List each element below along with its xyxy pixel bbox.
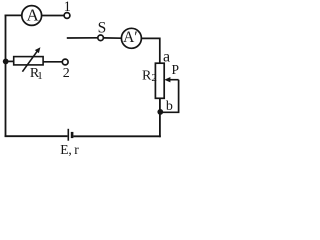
- svg-text:A: A: [26, 5, 39, 24]
- svg-text:2: 2: [63, 66, 70, 81]
- terminal 2: [62, 59, 68, 65]
- terminal 1: [64, 13, 70, 19]
- wire ammeter A' to right corner: [141, 38, 159, 63]
- wire S to ammeter A': [103, 37, 121, 39]
- resistor R2: [155, 63, 164, 98]
- ammeter A': [121, 28, 141, 48]
- slider P arrow: [164, 77, 178, 82]
- wire bottom rail left of battery: [5, 135, 68, 137]
- battery short plate: [71, 132, 74, 138]
- wire switch row free end to S: [67, 37, 98, 39]
- junction node b dot: [157, 109, 163, 115]
- svg-text:A′: A′: [123, 29, 138, 46]
- ammeter A: [22, 5, 42, 25]
- wire left bus to R1: [6, 60, 14, 62]
- svg-text:b: b: [166, 99, 173, 114]
- wire left bus: [5, 15, 7, 137]
- svg-text:E, r: E, r: [60, 142, 79, 157]
- svg-text:S: S: [98, 20, 107, 37]
- wire R2 bottom to bottom rail: [159, 98, 161, 137]
- switch S contact: [98, 35, 104, 41]
- rheostat R1 arrow: [22, 47, 40, 71]
- wire bottom rail right of battery: [73, 135, 160, 137]
- svg-text:P: P: [172, 62, 180, 77]
- wire R1 to terminal 2: [43, 61, 62, 63]
- battery long plate: [67, 129, 69, 141]
- svg-text:1: 1: [64, 0, 71, 15]
- resistor R1 (rheostat): [14, 57, 43, 65]
- wire slider P down to node b: [161, 80, 179, 113]
- wire ammeter A to terminal 1: [42, 15, 65, 17]
- wire top row to ammeter A: [5, 14, 22, 16]
- junction dot left bus: [3, 59, 9, 65]
